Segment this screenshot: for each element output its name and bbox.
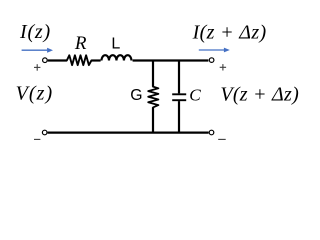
svg-text:C: C xyxy=(189,86,201,105)
svg-text:R: R xyxy=(74,33,87,54)
svg-text:L: L xyxy=(111,35,120,52)
svg-text:I(z + Δz): I(z + Δz) xyxy=(192,22,267,44)
svg-text:G: G xyxy=(130,87,142,104)
svg-text:I(z): I(z) xyxy=(19,21,51,43)
svg-text:V(z): V(z) xyxy=(16,83,54,105)
svg-text:V(z + Δz): V(z + Δz) xyxy=(220,84,299,106)
